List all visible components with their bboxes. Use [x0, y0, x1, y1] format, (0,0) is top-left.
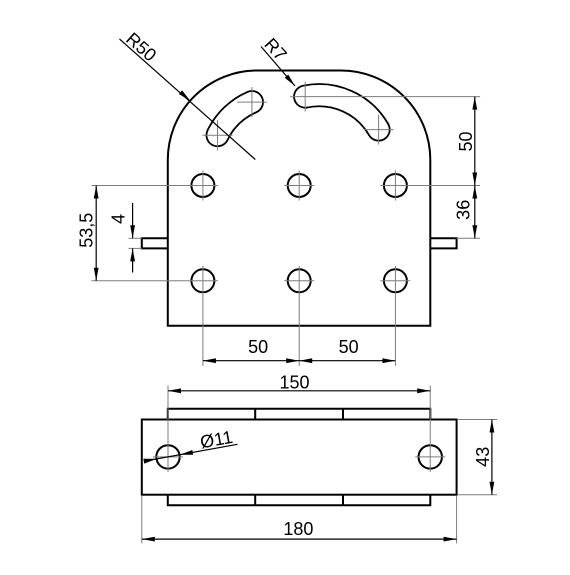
crosshair hole bottom-right with extension down	[380, 280, 410, 282]
right hole centerline horizontal	[415, 456, 445, 458]
svg-text:180: 180	[283, 519, 313, 539]
bottom slab divider right	[342, 495, 344, 506]
hole top-right	[384, 174, 407, 197]
hole bottom-right	[384, 269, 407, 292]
hole bottom-middle	[288, 269, 311, 292]
svg-text:150: 150	[279, 373, 309, 393]
extension lines tab 4 dim	[129, 237, 142, 239]
crosshair hole top-left with extension to 53,5 dim	[92, 185, 218, 187]
left hole centerline vertical merged with 150 extension	[167, 385, 169, 472]
svg-text:50: 50	[456, 131, 476, 151]
bottom view outer rectangle	[142, 420, 457, 495]
crosshair hole bottom-left with extensions left and down	[92, 280, 218, 282]
extension lines 43 dim	[458, 419, 497, 421]
crosshair hole bottom-middle with extension down	[284, 280, 314, 282]
dimension 43 right vertical	[473, 420, 494, 495]
dimension 50 bottom left span	[203, 337, 396, 363]
right arc slot	[305, 95, 378, 129]
bottom view top slab	[168, 409, 431, 420]
centerlines and extension lines top view	[92, 82, 481, 366]
hole top-middle	[288, 174, 311, 197]
crosshair hole top-right with extension to 50/36 dims	[380, 185, 480, 187]
crosshair hole top-middle	[284, 185, 314, 187]
bottom view bottom slab	[168, 495, 431, 506]
crosshair left slot lower end	[203, 134, 233, 136]
diameter 11 leader	[143, 427, 237, 464]
left arc slot	[218, 102, 252, 135]
R7 leader	[260, 34, 295, 86]
hole bottom-left	[191, 269, 214, 292]
dimension 180	[142, 519, 457, 541]
dimension 53,5 left	[77, 186, 99, 281]
right hole centerline vertical merged with 150 extension	[429, 385, 431, 472]
right side tab	[430, 238, 456, 248]
dimension 4 left tab	[108, 203, 135, 273]
hole right bottom view	[419, 445, 442, 468]
svg-text:43: 43	[473, 447, 493, 467]
top slab divider right	[342, 409, 344, 420]
top slab divider left	[254, 409, 256, 420]
svg-text:50: 50	[248, 337, 268, 357]
crosshair right slot left end with extension to 50 dim	[290, 96, 480, 98]
centerlines and extension lines bottom view	[142, 385, 497, 543]
extension line tab top right for 36 dim	[457, 237, 481, 239]
svg-text:50: 50	[339, 337, 359, 357]
hole top-left	[191, 174, 214, 197]
left hole centerline horizontal	[153, 456, 183, 458]
dimension 36 right vertical	[453, 186, 477, 239]
dimension 50 bottom right span	[299, 337, 395, 363]
svg-text:36: 36	[453, 200, 473, 220]
plate outline top view	[168, 71, 431, 326]
dimension 150	[168, 373, 430, 394]
left side tab	[142, 238, 168, 248]
R50 leader	[120, 29, 256, 160]
crosshair left slot upper end	[237, 101, 267, 103]
bottom slab divider left	[254, 495, 256, 506]
crosshair right slot right end	[364, 129, 394, 131]
svg-text:53,5: 53,5	[77, 213, 97, 248]
dimension 50 right vertical	[456, 97, 477, 186]
svg-text:4: 4	[108, 214, 128, 224]
hole left bottom view	[156, 445, 179, 468]
extension lines 180 dim	[141, 496, 143, 543]
